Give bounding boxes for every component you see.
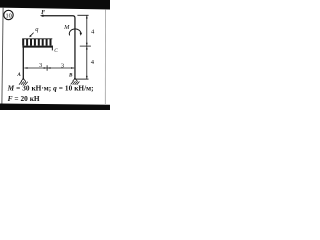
page border right	[104, 9, 106, 104]
svg-text:C: C	[54, 48, 58, 54]
svg-text:3: 3	[61, 63, 64, 70]
ground extension line at B	[76, 78, 89, 80]
dim3 left arrowhead	[25, 67, 28, 69]
svg-text:M: M	[63, 24, 70, 31]
svg-text:М = 30 кН·м; q = 10 кН/м;: М = 30 кН·м; q = 10 кН/м;	[7, 84, 94, 93]
moment M arc	[69, 29, 81, 35]
top black band	[0, 0, 110, 10]
left column	[22, 46, 24, 79]
dim3 middle arrowheads	[44, 67, 47, 69]
distributed load q top line	[22, 38, 52, 40]
svg-text:3: 3	[39, 62, 42, 69]
support B legs	[73, 78, 78, 81]
distributed load ticks	[23, 39, 50, 46]
dim4 middle arrowheads	[86, 43, 88, 46]
end tick C	[51, 46, 53, 51]
dim4 middle tick	[80, 45, 91, 47]
support A pin	[22, 78, 24, 80]
dim4 top extension tick	[77, 14, 88, 16]
svg-text:A: A	[16, 72, 21, 78]
support B pin	[74, 78, 76, 80]
page border left	[2, 8, 3, 104]
dim3 right arrowhead	[71, 67, 74, 69]
beam with load	[22, 46, 52, 48]
dim4 bottom arrowhead	[86, 76, 88, 79]
support A hatching	[19, 81, 28, 85]
dimension line 4+4	[86, 15, 88, 79]
frame top member with corner and right column	[43, 16, 75, 79]
variant badge circle 10	[4, 10, 13, 19]
dimension line 3+3	[24, 67, 74, 69]
bottom black band	[0, 104, 110, 111]
svg-text:F: F	[41, 10, 45, 16]
paper background	[0, 0, 110, 110]
support A legs	[21, 79, 26, 82]
force F arrowhead	[40, 15, 44, 17]
moment arrowhead	[80, 33, 83, 36]
support B hatching	[71, 81, 80, 85]
svg-text:10: 10	[5, 12, 11, 19]
svg-text:B: B	[68, 72, 73, 78]
dim4 top arrowhead	[86, 16, 88, 19]
svg-text:F = 20 кН: F = 20 кН	[8, 94, 40, 103]
dim3 middle tick	[46, 65, 48, 70]
q leader arrow	[30, 33, 33, 37]
